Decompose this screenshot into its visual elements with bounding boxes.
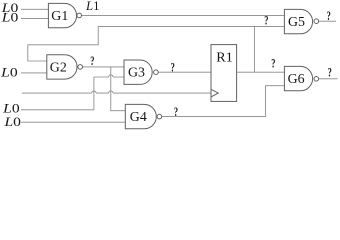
svg-text:L0: L0 xyxy=(3,115,21,129)
svg-text:G6: G6 xyxy=(288,71,305,86)
svg-text:?: ? xyxy=(90,53,94,68)
svg-text:?: ? xyxy=(328,65,332,80)
svg-text:?: ? xyxy=(327,8,331,23)
svg-text:L0: L0 xyxy=(1,11,19,25)
svg-text:?: ? xyxy=(171,60,175,75)
svg-text:L1: L1 xyxy=(85,0,100,13)
svg-text:L0: L0 xyxy=(2,102,20,116)
svg-text:R1: R1 xyxy=(216,49,233,64)
svg-text:L0: L0 xyxy=(0,66,18,80)
svg-text:?: ? xyxy=(264,12,268,27)
svg-text:G3: G3 xyxy=(128,65,145,80)
svg-text:?: ? xyxy=(271,56,275,71)
svg-text:G5: G5 xyxy=(288,14,305,29)
svg-text:G4: G4 xyxy=(130,109,147,124)
svg-text:G2: G2 xyxy=(50,59,67,74)
svg-text:?: ? xyxy=(174,104,178,119)
svg-text:G1: G1 xyxy=(51,8,68,23)
